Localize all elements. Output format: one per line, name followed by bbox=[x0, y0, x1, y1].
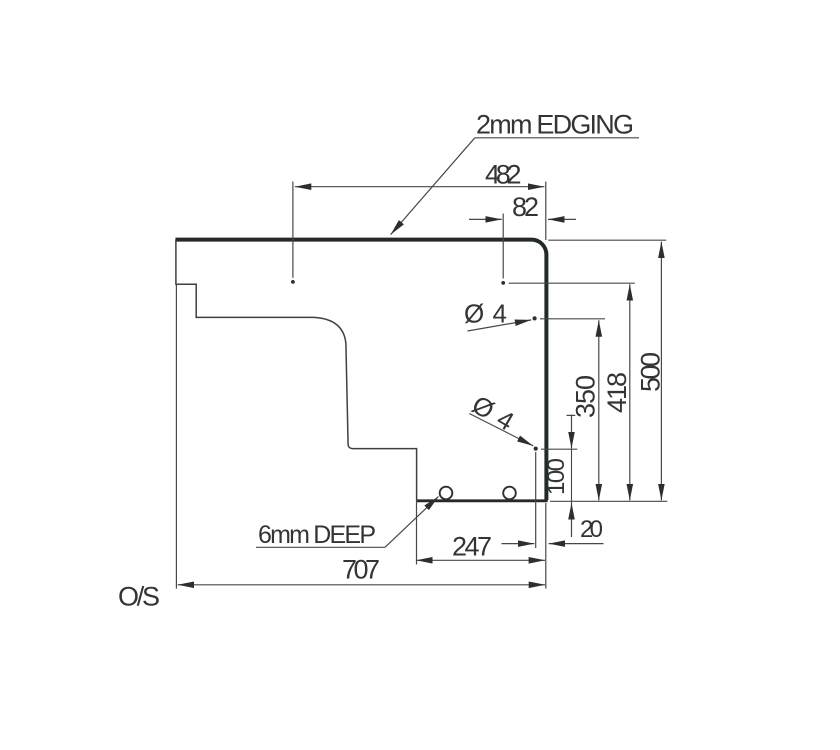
svg-text:6mm DEEP: 6mm DEEP bbox=[258, 521, 376, 549]
extension line: left top fixing point up to 482 dim bbox=[292, 182, 294, 278]
dim 350: vertical dimension line with arrows bbox=[598, 320, 600, 500]
svg-text:Ø 4: Ø 4 bbox=[467, 389, 519, 436]
label 2mm EDGING: text bbox=[476, 110, 634, 140]
dim 500: value text (rotated) bbox=[636, 352, 666, 392]
label 6mm DEEP: text bbox=[258, 521, 376, 549]
label upper hole Ø4: text bbox=[464, 299, 507, 329]
label 2mm EDGING: underline bbox=[475, 137, 639, 139]
dim 20: right outside arrow pointing left with tail bbox=[549, 543, 604, 545]
dim 418: fixing-point reference line bbox=[509, 282, 635, 284]
dim 82: left outside arrow pointing right bbox=[469, 218, 502, 220]
dim 82: value text bbox=[512, 192, 539, 222]
svg-text:Ø 4: Ø 4 bbox=[464, 299, 507, 329]
worktop outline: top edge with 2mm edging + rounded corner + right edge (thick) bbox=[175, 240, 546, 501]
dim 100: hole-centre tick line bbox=[541, 448, 577, 450]
circle: left 6mm deep hole bbox=[440, 487, 453, 500]
svg-text:2mm EDGING: 2mm EDGING bbox=[476, 110, 634, 140]
svg-text:350: 350 bbox=[571, 375, 601, 418]
dim 82: right outside arrow pointing left with tail bbox=[548, 218, 576, 220]
dim 482: dimension line with arrows bbox=[295, 186, 545, 188]
dim 100: value text (rotated) bbox=[543, 458, 570, 495]
circle: right 6mm deep hole bbox=[503, 487, 516, 500]
dim 707: value text bbox=[342, 555, 380, 585]
dim 500: vertical dimension line with arrows bbox=[660, 242, 662, 501]
dim 20: value text bbox=[580, 516, 603, 543]
dim 350: upper hole reference tick bbox=[540, 318, 605, 320]
dim 500: bottom edge reference line bbox=[550, 500, 667, 502]
dot: right top fixing point bbox=[501, 281, 505, 285]
label upper hole Ø4: leader arrow bbox=[468, 320, 532, 331]
label 6mm DEEP: underline bbox=[256, 546, 385, 548]
worktop thin profile outline: left edge, step, curved recess, lower notch bbox=[176, 240, 417, 500]
svg-text:20: 20 bbox=[580, 516, 603, 543]
dim 100: vertical line through part with outside arrows bbox=[567, 415, 576, 538]
dot: left top fixing point bbox=[291, 280, 295, 284]
label 6mm DEEP: leader arrow to left hole bbox=[385, 497, 439, 548]
dot: upper 4mm hole centre bbox=[533, 316, 537, 320]
svg-text:482: 482 bbox=[485, 160, 522, 190]
extension line: bottom notch left edge down to 247 dim bbox=[416, 501, 418, 565]
label 2mm EDGING: leader arrow to top edge bbox=[391, 138, 475, 235]
extension line: right top fixing point up to 82 dim bbox=[502, 214, 504, 279]
extension line: right edge plane up to 482/82 dims bbox=[545, 182, 547, 241]
svg-text:418: 418 bbox=[602, 372, 632, 413]
dim 707: dimension line with arrows bbox=[178, 584, 546, 586]
worktop bottom edge (thick) bbox=[416, 499, 547, 502]
dim 482: value text bbox=[485, 160, 522, 190]
dim 20: left outside arrow pointing right bbox=[502, 543, 535, 545]
label lower hole Ø4: text (rotated) bbox=[467, 389, 519, 436]
svg-text:500: 500 bbox=[636, 352, 666, 392]
dim 247: dimension line with arrows bbox=[416, 559, 545, 561]
extension line: left edge plane down to 707 dim bbox=[175, 285, 177, 589]
svg-text:707: 707 bbox=[342, 555, 380, 585]
label lower hole Ø4: leader arrow bbox=[469, 414, 533, 446]
svg-text:O/S: O/S bbox=[118, 582, 160, 612]
dot: lower 4mm hole centre bbox=[534, 447, 538, 451]
svg-text:247: 247 bbox=[452, 532, 492, 562]
dim 418: vertical dimension line with arrows bbox=[629, 284, 631, 500]
dim 350: value text (rotated) bbox=[571, 375, 601, 418]
extension line: right edge plane, bottom corner down to 707 dim bbox=[545, 503, 547, 589]
label O/S bbox=[118, 582, 160, 612]
svg-text:100: 100 bbox=[543, 458, 570, 495]
extension line: lower hole centre down to 20 dim bbox=[535, 452, 537, 548]
dim 247: value text bbox=[452, 532, 492, 562]
dim 418: value text (rotated) bbox=[602, 372, 632, 413]
svg-text:82: 82 bbox=[512, 192, 539, 222]
dim 500: top edge reference line bbox=[548, 239, 666, 241]
